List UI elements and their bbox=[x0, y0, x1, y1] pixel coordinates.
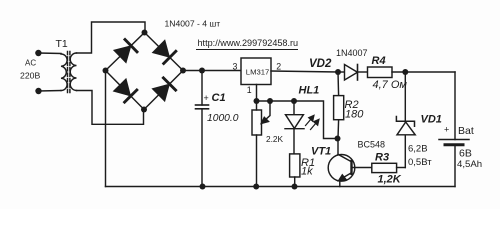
svg-text:AC: AC bbox=[25, 58, 36, 67]
AC source terminal top bbox=[35, 50, 41, 56]
node bridge top bbox=[142, 30, 148, 36]
svg-text:0,5Вт: 0,5Вт bbox=[408, 157, 432, 168]
resistor 2.2K potentiometer body bbox=[252, 110, 262, 135]
svg-text:VD2: VD2 bbox=[309, 58, 332, 70]
svg-text:VT1: VT1 bbox=[311, 146, 331, 158]
svg-text:1000.0: 1000.0 bbox=[207, 113, 239, 124]
node bridge bottom bbox=[141, 107, 147, 113]
node bridge left bbox=[103, 68, 109, 74]
svg-text:1,2K: 1,2K bbox=[378, 174, 402, 186]
AC source terminal bottom bbox=[35, 88, 41, 94]
resistor R2 top lead bbox=[337, 72, 340, 96]
svg-text:LM317: LM317 bbox=[246, 68, 270, 77]
diode bridge D4 (bottom to right node) bbox=[153, 85, 169, 101]
LED light arrows bbox=[306, 116, 319, 130]
svg-text:1: 1 bbox=[247, 85, 252, 95]
resistor R2 body bbox=[334, 96, 344, 120]
transformer T1 primary winding bbox=[61, 54, 67, 91]
ground rail wire bbox=[106, 186, 456, 188]
transformer T1 secondary winding bbox=[70, 53, 76, 91]
wire R3 to zener bbox=[397, 167, 406, 169]
svg-text:http://www.299792458.ru: http://www.299792458.ru bbox=[198, 38, 299, 48]
wire AC bottom to primary bbox=[39, 90, 62, 93]
node C1 bottom bbox=[200, 184, 206, 190]
wire bridge right node to LM317 pin3 bbox=[183, 70, 241, 72]
resistor R1 body bbox=[290, 154, 300, 177]
wire R1 to ground bbox=[294, 177, 296, 187]
wire R2 bottom to collector node bbox=[337, 120, 340, 139]
svg-text:6,2В: 6,2В bbox=[408, 144, 428, 155]
svg-text:Bat: Bat bbox=[458, 125, 474, 137]
node R4 output bbox=[402, 69, 408, 75]
LED HL1 bbox=[293, 101, 295, 115]
wire battery positive drop bbox=[454, 72, 456, 140]
wire battery negative bbox=[454, 145, 456, 187]
svg-text:4,7 Ом: 4,7 Ом bbox=[373, 79, 408, 91]
op-amp U1 LM317 regulator box bbox=[241, 58, 271, 85]
svg-text:180: 180 bbox=[345, 109, 364, 121]
svg-text:1k: 1k bbox=[301, 166, 313, 178]
node VD2 anode junction bbox=[335, 69, 341, 75]
svg-text:T1: T1 bbox=[56, 38, 68, 50]
zener diode VD1 branch wire bbox=[404, 72, 406, 168]
resistor R3 body bbox=[372, 163, 397, 172]
svg-text:VD1: VD1 bbox=[421, 114, 442, 126]
svg-text:R3: R3 bbox=[375, 152, 389, 164]
wire ADJ line bbox=[257, 101, 338, 139]
svg-text:6В: 6В bbox=[459, 148, 472, 160]
diode bridge D1 (left node to top) bbox=[114, 46, 130, 62]
node VT1 collector bbox=[335, 136, 341, 142]
node R1 ground bbox=[292, 184, 298, 190]
wire secondary bottom to bridge bottom node bbox=[77, 91, 144, 125]
diode bridge D2 (top to right node) bbox=[153, 41, 169, 57]
pot wiper arrow bbox=[265, 101, 271, 121]
svg-text:HL1: HL1 bbox=[299, 85, 320, 97]
node pot ground bbox=[253, 184, 259, 190]
svg-text:1N4007: 1N4007 bbox=[336, 48, 368, 58]
svg-text:2: 2 bbox=[276, 62, 281, 72]
bridge edge wires bbox=[106, 33, 184, 110]
svg-text:+: + bbox=[444, 125, 449, 135]
wire LM317 pin1 down bbox=[256, 85, 258, 102]
wire bridge left node to ground rail bbox=[105, 71, 107, 187]
wire secondary top to bridge top node bbox=[77, 22, 146, 53]
node pot wiper bbox=[267, 98, 273, 104]
transistor Q1 VT1 BC548 bbox=[328, 155, 355, 182]
node HL1 anode bbox=[291, 98, 297, 104]
svg-text:BC548: BC548 bbox=[358, 140, 386, 150]
svg-text:C1: C1 bbox=[212, 92, 226, 104]
wire pot top lead bbox=[256, 101, 258, 110]
capacitor C1 bbox=[201, 71, 203, 106]
battery Bat plates bbox=[439, 139, 469, 141]
wire VT1 base to R3 bbox=[352, 167, 372, 169]
svg-text:4,5Ah: 4,5Ah bbox=[457, 159, 482, 170]
wire R4 to battery top bbox=[392, 71, 455, 73]
resistor R4 body bbox=[368, 67, 393, 78]
diode VD2 1N4007 bbox=[338, 71, 345, 73]
node ADJ pin1 bbox=[254, 98, 260, 104]
svg-text:1N4007 - 4 шт: 1N4007 - 4 шт bbox=[165, 19, 221, 29]
svg-text:2.2K: 2.2K bbox=[266, 134, 284, 144]
wire AC top to primary bbox=[38, 52, 61, 55]
svg-text:+: + bbox=[204, 93, 209, 103]
svg-text:220В: 220В bbox=[20, 71, 40, 81]
zener diode VD1 bbox=[397, 122, 415, 135]
node C1 top bbox=[199, 68, 205, 74]
svg-text:3: 3 bbox=[233, 62, 238, 72]
diode bridge D3 (left node to bottom) bbox=[114, 79, 130, 95]
svg-text:R4: R4 bbox=[372, 55, 386, 67]
wire pot bottom lead bbox=[256, 135, 258, 187]
wire LM317 pin2 output bbox=[271, 71, 338, 72]
node bridge right bbox=[180, 68, 186, 74]
transformer T1 core bbox=[67, 52, 69, 94]
